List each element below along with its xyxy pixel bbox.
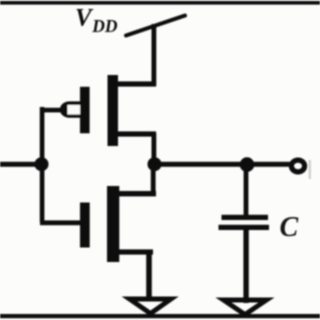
wire output horizontal xyxy=(153,162,290,167)
bottom border xyxy=(0,314,320,318)
faint artifact right of output xyxy=(309,160,311,179)
transistor M2 gate bar xyxy=(80,203,90,248)
wire PMOS source down to node B xyxy=(152,133,157,165)
wire left vertical (input riser) xyxy=(40,107,45,222)
ground (right) xyxy=(224,300,267,315)
wire NMOS source horizontal xyxy=(119,249,153,254)
wire NMOS source down to ground xyxy=(146,251,152,301)
node A junction dot xyxy=(35,157,49,171)
wire input horizontal xyxy=(0,162,44,167)
output terminal xyxy=(291,160,304,172)
transistor M1 gate bubble xyxy=(60,101,81,117)
VDD supply diagonal xyxy=(126,16,185,36)
wire NMOS drain vertical from node B xyxy=(151,164,156,195)
wire VDD vertical xyxy=(152,24,157,86)
wire PMOS source stub xyxy=(117,131,156,136)
ground (left) xyxy=(130,299,172,314)
svg-text:C: C xyxy=(280,212,299,243)
wire NMOS gate horizontal xyxy=(40,220,81,225)
transistor M2 channel bar xyxy=(107,186,119,262)
transistor M1 gate bar xyxy=(80,87,90,134)
top border xyxy=(0,1,320,5)
wire PMOS gate horizontal xyxy=(42,108,64,113)
wire NMOS drain horizontal xyxy=(119,191,156,196)
capacitor C bottom plate xyxy=(219,225,270,230)
capacitor C top plate xyxy=(222,215,269,220)
wire PMOS drain stub xyxy=(117,81,156,86)
wire capacitor top vertical xyxy=(244,164,249,216)
transistor M1 channel bar xyxy=(108,75,119,146)
wire capacitor bottom vertical xyxy=(243,230,248,303)
node C junction dot xyxy=(240,157,255,172)
node B junction dot xyxy=(148,157,162,171)
